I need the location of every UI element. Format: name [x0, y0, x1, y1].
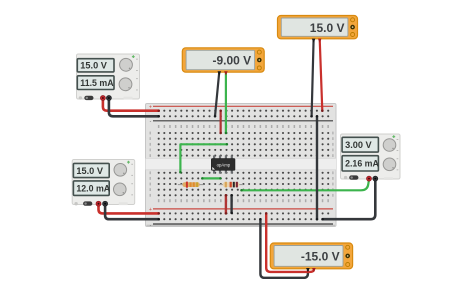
wire black from supply PS3 to bottom rail -: [321, 180, 375, 220]
svg-text:3.00 V: 3.00 V: [345, 140, 372, 150]
op-amp U1: [211, 155, 235, 173]
multimeter M2 -9.00V red probe: [224, 71, 228, 75]
svg-text:15.0 V: 15.0 V: [310, 21, 345, 35]
multimeter M2 -9.00V black probe: [218, 71, 222, 75]
multimeter M1 15.0V: [278, 16, 358, 39]
multimeter M3 -15.0V black probe: [306, 268, 310, 272]
wire green probe multimeter M2 to row a: [225, 72, 228, 135]
power supply PS1 red terminal: [100, 96, 105, 101]
wire black probe multimeter M1 to top rail -: [310, 39, 313, 118]
wire black jumper row j to bottom rail: [230, 194, 233, 214]
multimeter M3 -15.0V: [270, 243, 352, 269]
svg-text:opAmp: opAmp: [217, 162, 231, 167]
resistor R2: [219, 182, 244, 188]
power supply PS2 switch: [74, 201, 92, 205]
svg-text:15.0 V: 15.0 V: [76, 166, 103, 176]
svg-text:15.0 V: 15.0 V: [80, 61, 107, 71]
power supply PS3 black terminal: [373, 176, 378, 181]
wire red jumper top rail + to row a: [219, 109, 222, 134]
breadboard body: [146, 104, 337, 227]
power supply PS1 body: [77, 54, 140, 99]
wire black from supply PS1 to top rail -: [109, 98, 160, 118]
power supply PS3 switch: [344, 175, 359, 179]
wire black from supply PS2 to bottom rail -: [105, 203, 160, 220]
wire red from bottom rail + to multimeter M3: [265, 212, 314, 272]
power supply PS2 black terminal: [103, 201, 108, 206]
multimeter M1 15.0V black probe: [312, 39, 316, 43]
wire red from supply PS2 to bottom rail +: [99, 203, 160, 215]
power supply PS3 red terminal: [367, 176, 372, 181]
power supply PS2 body: [72, 160, 135, 206]
multimeter M3 -15.0V red probe: [312, 268, 316, 272]
wire green jumper row f to row c: [179, 143, 228, 174]
breadboard column/row labels: [150, 125, 334, 202]
svg-text:12.0 mA: 12.0 mA: [76, 183, 110, 193]
wire green jumper row g: [201, 177, 222, 180]
wire black from bottom rail - to multimeter M3: [259, 218, 308, 278]
wire black probe multimeter M2 to top rail -: [214, 72, 220, 118]
svg-text:-15.0 V: -15.0 V: [301, 250, 340, 264]
wire red from supply PS1 to top rail +: [103, 98, 160, 112]
power supply PS3 body: [341, 134, 401, 180]
power supply PS1 switch: [79, 96, 94, 100]
breadboard holes: [158, 110, 330, 221]
power supply PS2 red terminal: [96, 201, 101, 206]
multimeter M1 15.0V red probe: [318, 39, 322, 43]
svg-text:11.5 mA: 11.5 mA: [80, 78, 114, 88]
wire red probe multimeter M1 to top rail +: [320, 39, 324, 112]
svg-text:-9.00 V: -9.00 V: [212, 54, 251, 68]
breadboard power rail lines: [153, 105, 333, 107]
multimeter M2 -9.00V: [182, 48, 264, 72]
wire black jumper top rail - to bottom rail -: [316, 115, 319, 220]
wire green from row i to supply PS3 +: [240, 180, 369, 192]
resistor R1: [178, 182, 204, 188]
svg-text:+: +: [149, 207, 152, 213]
power supply PS1 black terminal: [106, 96, 111, 101]
svg-text:2.16 mA: 2.16 mA: [345, 159, 379, 169]
wire red jumper row j to bottom rail +: [225, 194, 228, 215]
